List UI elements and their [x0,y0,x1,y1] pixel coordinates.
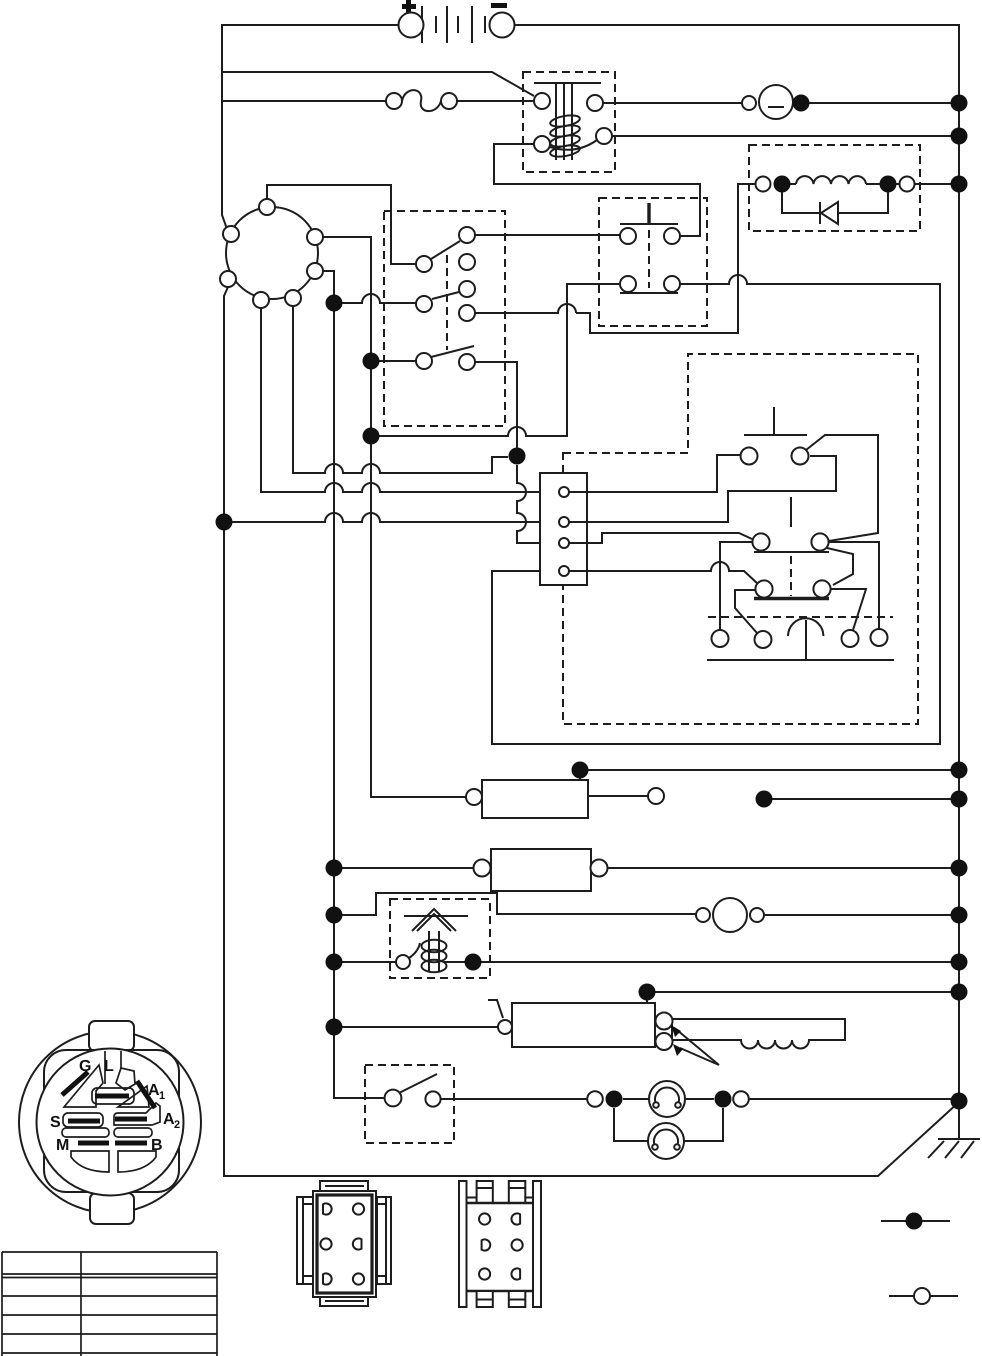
svg-text:2: 2 [174,1119,180,1131]
svg-text:G: G [79,1058,91,1075]
svg-text:M: M [56,1137,69,1154]
svg-text:L: L [104,1058,114,1075]
svg-text:B: B [151,1137,163,1154]
svg-text:S: S [50,1114,61,1131]
svg-text:1: 1 [159,1090,165,1102]
